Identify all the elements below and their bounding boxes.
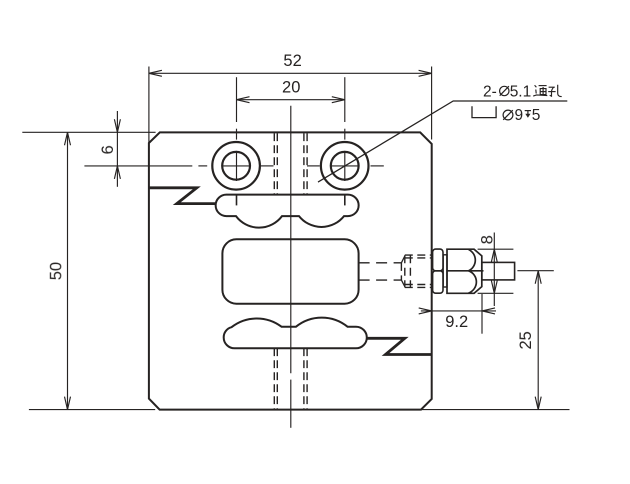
hole right through circle bbox=[331, 152, 359, 180]
dim 25 bottom extension line bbox=[421, 409, 570, 411]
dim 8 extension lines bbox=[478, 249, 514, 293]
hole left centerline tick into slot bbox=[236, 195, 238, 206]
centerline vertical hole right bbox=[344, 77, 346, 181]
cable gland body bbox=[447, 249, 482, 293]
hanzi tong (through) bbox=[533, 85, 547, 96]
svg-text:2-: 2- bbox=[483, 83, 497, 100]
hidden threaded stud bbox=[401, 255, 431, 287]
svg-text:5.1: 5.1 bbox=[510, 83, 532, 100]
gland facet arc upper bbox=[469, 250, 476, 271]
dim 50 line bbox=[67, 132, 69, 409]
jam nut lower half bbox=[433, 271, 443, 293]
dim 9.2 line bbox=[421, 310, 496, 312]
hanzi kong (hole) bbox=[548, 85, 562, 97]
svg-text:9.2: 9.2 bbox=[445, 313, 468, 331]
dim 8 line bbox=[493, 233, 495, 307]
dim 20 arrows bbox=[237, 97, 345, 103]
dim 20 line bbox=[237, 99, 345, 101]
svg-text:25: 25 bbox=[517, 331, 535, 349]
hidden thread lines bottom hole bbox=[274, 348, 307, 409]
dim 52 line bbox=[149, 72, 432, 74]
dim 50 bottom extension line bbox=[29, 409, 155, 411]
washer bbox=[443, 255, 447, 287]
top slot cloud cutout bbox=[216, 195, 359, 228]
break zigzag left (slot opening) bbox=[149, 188, 216, 204]
svg-text:5: 5 bbox=[532, 107, 541, 124]
center spring element rounded rectangle bbox=[222, 239, 358, 303]
svg-text:9: 9 bbox=[515, 107, 524, 124]
svg-text:8: 8 bbox=[479, 235, 497, 244]
dim 8 arrows bbox=[491, 249, 497, 293]
gland middle facet line bbox=[447, 270, 484, 272]
svg-text:50: 50 bbox=[47, 262, 65, 280]
cable stub bbox=[482, 262, 515, 280]
annotation diameter symbol line2 bbox=[503, 110, 513, 120]
centerline connector axis bbox=[517, 270, 553, 272]
centerline horizontal through holes bbox=[84, 165, 383, 167]
gland facet arc lower bbox=[469, 271, 477, 293]
dim 9.2 outside arrows bbox=[419, 308, 495, 314]
hidden thread lines top hole bbox=[274, 133, 307, 194]
body outline (chamfered square plate) bbox=[149, 132, 432, 409]
hole left through circle bbox=[222, 152, 250, 180]
dim 9.2 extension line right bbox=[481, 294, 483, 334]
jam nut upper half bbox=[433, 249, 443, 271]
leader line to holes bbox=[318, 101, 567, 182]
dim 52 arrows bbox=[149, 70, 432, 76]
dim 50 top extension line bbox=[22, 131, 155, 133]
svg-text:20: 20 bbox=[282, 79, 300, 97]
centerline vertical hole left bbox=[236, 77, 238, 181]
break zigzag right (slot opening) bbox=[367, 338, 432, 354]
hole right counterbore circle bbox=[321, 142, 369, 190]
centerline vertical main axis bbox=[290, 106, 292, 428]
bottom slot cloud cutout bbox=[224, 318, 367, 349]
hole left counterbore circle bbox=[212, 142, 260, 190]
stud tip chamfer lines bbox=[401, 256, 404, 287]
svg-text:6: 6 bbox=[99, 145, 117, 154]
depth symbol bbox=[525, 110, 531, 112]
counterbore symbol bbox=[472, 106, 496, 117]
dim 52 extension lines bbox=[149, 67, 432, 144]
svg-text:52: 52 bbox=[283, 52, 301, 70]
annotation diameter symbol line1 bbox=[500, 86, 509, 95]
dim 50 arrows bbox=[65, 132, 71, 409]
dim 25 arrows bbox=[535, 271, 541, 410]
dim 6 line and outside arrows bbox=[116, 111, 118, 187]
dim 25 line bbox=[537, 271, 539, 410]
hidden cable hole lines bbox=[359, 263, 402, 280]
hole right centerline tick into slot bbox=[344, 195, 346, 206]
